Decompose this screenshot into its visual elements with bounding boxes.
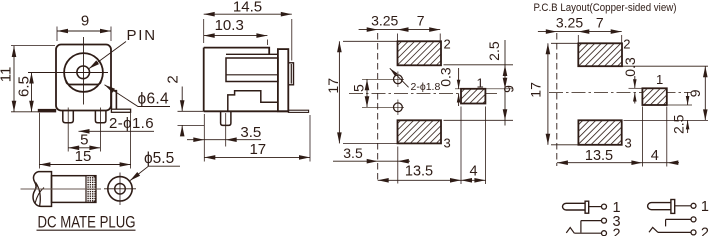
v3 leader 2-phi1.8 line — [390, 68, 409, 87]
v3 dim 5 line — [366, 79, 368, 107]
v4 pad2 bottom ext — [622, 65, 708, 67]
svg-text:2: 2 — [623, 36, 630, 51]
svg-text:3.5: 3.5 — [240, 124, 261, 141]
dim 14.5 arrow left — [204, 12, 215, 17]
dim 2 ext lower — [178, 124, 205, 126]
schematic A pin3 terminal — [602, 218, 607, 223]
v4 dim 2.5 arrow down — [686, 96, 690, 105]
dim 11 line — [13, 46, 15, 112]
front view right mounting foot — [111, 109, 130, 112]
side view top edge with step — [204, 48, 270, 55]
svg-text:2-ϕ1.8: 2-ϕ1.8 — [411, 81, 441, 93]
v3 pad 2 — [398, 41, 442, 65]
v4 dim 9 arrow bottom — [703, 109, 708, 120]
v3 dim 17 arrow top — [337, 41, 342, 52]
svg-text:1: 1 — [701, 199, 709, 215]
plug cap inner curve 2 — [35, 188, 44, 204]
leader 2-phi1.6 arrow — [79, 129, 90, 134]
dim 6.5 arrow top — [29, 73, 34, 84]
v4 dim 0.3 line upper — [634, 76, 636, 88]
svg-text:2-ϕ1.6: 2-ϕ1.6 — [109, 115, 154, 132]
v3 hole bottom htick — [362, 106, 404, 108]
v3 pad2 right ext — [439, 34, 441, 42]
v3 dim 13.5 arrow left — [378, 178, 389, 183]
front view left leg — [63, 111, 74, 123]
schematic A pin2 lever — [566, 228, 574, 234]
schematic B pin2 terminal — [691, 230, 696, 235]
dim 9 ext left — [56, 27, 58, 42]
dim 11 arrow bottom — [12, 101, 17, 112]
v3 hole top — [394, 75, 403, 84]
side view left edge — [203, 48, 205, 112]
svg-text:PIN: PIN — [127, 27, 157, 44]
front view right mounting tab — [111, 91, 116, 109]
v3 dim 0.3 arrow up — [457, 94, 461, 103]
schematic A tip bar — [585, 201, 589, 213]
svg-text:9: 9 — [81, 13, 89, 30]
dim 10.3 ext right — [266, 40, 268, 46]
PIN leader arrow — [89, 60, 99, 68]
v3 pad2 left ext — [397, 34, 399, 42]
svg-text:ϕ6.4: ϕ6.4 — [138, 91, 170, 108]
dim 9 ext right — [110, 27, 112, 42]
plug barrel — [52, 176, 96, 203]
v4 dim top line — [538, 31, 622, 33]
v3 dim 4 arrow right — [474, 178, 485, 183]
v4 dim 0.3 line lower — [634, 93, 636, 104]
dim 9 line — [57, 30, 111, 32]
v4 dim 17 arrow bottom — [546, 134, 551, 145]
v4 pad3 top ext — [624, 119, 709, 121]
dim 11 arrow top — [12, 46, 17, 57]
svg-text:0.3: 0.3 — [622, 57, 638, 77]
v4 dashed centerline vertical — [556, 33, 558, 166]
right leg centerline — [99, 108, 101, 152]
side view rear foot — [288, 110, 308, 112]
plug front outer circle — [108, 177, 132, 201]
dim 5 line — [68, 147, 100, 149]
v3 dim 17 arrow bottom — [337, 132, 342, 143]
dim 2 line lower — [181, 125, 183, 136]
v4 dim 2.5 line lower — [687, 120, 689, 133]
bottom reference ext line — [11, 111, 38, 113]
schematic A pin1 terminal — [602, 204, 607, 209]
phi6.4 leader — [105, 85, 171, 107]
side view step profile — [228, 91, 278, 111]
svg-text:3.25: 3.25 — [371, 13, 398, 29]
v3 dim bottom line — [378, 179, 486, 181]
v4 dim 7 arrow left — [578, 29, 589, 34]
front view barrel circle — [64, 53, 103, 92]
svg-text:17: 17 — [325, 78, 341, 94]
svg-text:5: 5 — [80, 132, 88, 149]
svg-text:2.5: 2.5 — [486, 41, 502, 61]
v4 pad 2 — [578, 43, 622, 66]
v3 dim top line — [359, 29, 441, 31]
dim 9 arrow right — [100, 29, 111, 34]
v3 dim 0.3 line upper — [458, 68, 460, 89]
v3 dim 2.5 arrow down — [503, 78, 508, 89]
svg-text:2: 2 — [701, 226, 709, 236]
svg-text:10.3: 10.3 — [215, 17, 244, 34]
phi6.4 arrow — [105, 85, 116, 93]
plug front crosshair h — [104, 188, 136, 190]
PIN leader line — [89, 42, 126, 69]
v3 dim 13.5 arrow right — [450, 178, 461, 183]
dim 2 line upper — [181, 87, 183, 112]
side view cavity rect — [226, 58, 278, 82]
svg-text:P.C.B Layout(Copper-sided view: P.C.B Layout(Copper-sided view) — [534, 2, 677, 14]
dim 17 line — [204, 156, 310, 158]
left leg centerline — [67, 108, 69, 152]
schematic B tip bar — [671, 200, 675, 214]
schematic B pin1 wire — [675, 205, 691, 207]
side view front leg — [221, 111, 231, 125]
dim 17 arrow right — [299, 155, 310, 160]
front view contact bar — [66, 81, 101, 85]
v4 dim 0.3 arrow down — [633, 79, 637, 88]
dim 6.5 line — [31, 73, 33, 112]
v4 dim 13.5 arrow left — [557, 160, 568, 165]
v3 pad1 left ext — [460, 107, 462, 185]
v4 dim 0.3 arrow up — [633, 93, 637, 102]
dim 2 arrow up — [180, 125, 185, 136]
v3 pad 3 — [398, 120, 442, 143]
v4 dim 3.25 arrow left — [546, 29, 557, 34]
svg-text:DC MATE PLUG: DC MATE PLUG — [38, 214, 136, 232]
v4 dim 17 ext bottom — [551, 144, 578, 146]
v4 dim 17 arrow top — [546, 43, 551, 54]
front view vertical centerline — [83, 37, 85, 105]
v3 dim 2.5 arrow up — [503, 65, 508, 76]
v3 dim 5 arrow top — [365, 79, 370, 90]
v3 dim 0.3 arrow down — [457, 80, 461, 89]
v4 dim 9 line — [704, 66, 706, 120]
dim 14.5 line — [204, 13, 292, 15]
schematic B pin3 terminal — [691, 217, 696, 222]
svg-text:ϕ5.5: ϕ5.5 — [144, 150, 174, 167]
v4 dim 13.5 arrow right — [631, 160, 642, 165]
svg-text:6.5: 6.5 — [15, 76, 32, 97]
v3 hole bottom vtick — [397, 100, 399, 116]
plug knurled tip — [86, 176, 96, 203]
v3 dim 17 line — [338, 41, 340, 143]
v3 dim 9 arrow bottom — [503, 109, 508, 120]
dim 6.5 arrow bottom — [29, 101, 34, 112]
dim 15 ext left — [38, 113, 40, 169]
front view body — [56, 45, 111, 111]
v4 pad1 left ext — [641, 107, 643, 167]
v4 pad 1 — [642, 88, 666, 105]
schematic A pin2 wire — [574, 232, 601, 234]
plug front inner circle — [115, 184, 126, 195]
v3 leader 2-phi1.8 arrow — [390, 68, 398, 76]
svg-text:5: 5 — [351, 84, 367, 92]
schematic B pin2 lever — [649, 227, 658, 232]
v3 dim 3.25 arrow left — [367, 27, 378, 32]
svg-text:1: 1 — [656, 72, 663, 87]
v3 pad1 top ext — [455, 88, 513, 90]
side left edge ext — [203, 114, 205, 162]
DC MATE PLUG underline — [37, 229, 136, 231]
schematic A pin3 wire — [581, 220, 601, 222]
v3 dim 4 arrow left — [461, 178, 472, 183]
dim 15 line — [39, 164, 130, 166]
plug cap — [33, 172, 51, 207]
v3 hole top htick — [362, 78, 404, 80]
dim 15 arrow right — [120, 162, 131, 167]
v4 dim bottom line — [557, 162, 679, 164]
v3 dim 3.5 line — [333, 160, 410, 162]
dim 3.5 arrow left — [193, 137, 204, 142]
v4 pad1 right ext — [666, 107, 668, 167]
v4 dim 7 arrow right — [611, 29, 622, 34]
schematic A pin1 wire — [589, 206, 602, 208]
v4 pad1 bottom ext — [667, 104, 692, 106]
v4 dim 17 ext top — [551, 42, 578, 44]
v3 pad1 right ext — [484, 107, 486, 185]
v3 dim 2.5/9 line — [504, 40, 506, 126]
dim 2 arrow down — [180, 100, 185, 111]
svg-text:17: 17 — [528, 82, 544, 98]
svg-text:2: 2 — [165, 75, 182, 83]
v3 dashed centerline vertical — [377, 33, 379, 182]
v4 horizontal centerline — [549, 92, 691, 94]
v3 dim 0.3 line lower — [458, 94, 460, 107]
svg-text:0.3: 0.3 — [437, 67, 453, 87]
v4 dim 9 arrow top — [703, 66, 708, 77]
front view horizontal centerline — [28, 72, 108, 74]
svg-text:3.5: 3.5 — [343, 145, 363, 161]
schematic A plug barrel — [563, 203, 587, 210]
v4 dim 17 line — [547, 43, 549, 145]
svg-text:2.5: 2.5 — [671, 114, 687, 134]
dim 17 arrow left — [204, 155, 215, 160]
v4 dim 4 arrow right — [667, 160, 678, 165]
v4 dim 2.5 line upper — [687, 92, 689, 105]
svg-text:13.5: 13.5 — [585, 148, 613, 164]
front view left mounting foot — [38, 109, 56, 113]
schematic B pin3 wire — [666, 218, 691, 220]
dim 17 ext right — [309, 115, 311, 162]
svg-text:14.5: 14.5 — [233, 0, 262, 16]
svg-text:11: 11 — [0, 67, 15, 83]
leader 2-phi1.6 line — [79, 130, 155, 132]
phi5.5 leader — [130, 166, 180, 180]
side leg centerline — [225, 113, 227, 147]
svg-text:7: 7 — [596, 15, 604, 31]
dim 14.5 ext right — [291, 19, 293, 61]
svg-text:13.5: 13.5 — [405, 164, 433, 180]
dim 15 ext right — [130, 113, 132, 169]
dim 10.3 arrow left — [204, 33, 215, 38]
v4 pad2 right ext — [621, 35, 623, 43]
side view terminal inner line — [290, 64, 292, 84]
svg-text:2: 2 — [613, 226, 621, 236]
svg-text:9: 9 — [501, 85, 517, 93]
dim 11 ext top — [11, 45, 55, 47]
v4 pad 3 — [578, 120, 621, 145]
dim 3.5 arrow right — [226, 137, 237, 142]
dim 10.3 line — [204, 35, 268, 37]
v3 dim 7 arrow left — [398, 27, 409, 32]
v4 dim 2.5 arrow up — [686, 120, 690, 129]
svg-text:7: 7 — [417, 13, 425, 29]
front view center pin — [77, 66, 90, 79]
v3 dim 3.5 arrow right — [398, 159, 409, 164]
v3 pad2 bottom ext — [444, 64, 514, 66]
v3 pad 1 — [461, 89, 485, 104]
front view right leg — [95, 111, 106, 123]
schematic B pin3 drop — [665, 219, 667, 226]
schematic B plug barrel — [648, 203, 673, 210]
svg-text:15: 15 — [75, 148, 92, 165]
plug cap inner curve — [36, 183, 41, 207]
schematic A pin2 terminal — [602, 231, 607, 236]
v3 dim 5 arrow bottom — [365, 96, 370, 107]
dim 14.5 ext left — [203, 19, 205, 43]
dim 2 ext upper — [178, 110, 204, 112]
dim 9 arrow left — [57, 29, 68, 34]
dim 3.5 line — [187, 139, 261, 141]
schematic A pin3 drop — [580, 221, 582, 233]
plug centerline — [21, 188, 102, 190]
v3 dim 7 arrow right — [429, 27, 440, 32]
plug front crosshair v — [119, 173, 121, 206]
dim 5 arrow right — [89, 146, 100, 151]
svg-text:3: 3 — [625, 136, 632, 151]
svg-text:17: 17 — [249, 141, 266, 158]
side view cavity upper line — [226, 53, 278, 55]
dim 14.5 arrow right — [281, 12, 292, 17]
dim 15 arrow left — [39, 162, 50, 167]
v3 horizontal centerline — [349, 93, 497, 95]
svg-text:4: 4 — [651, 148, 659, 164]
phi5.5 arrow — [130, 172, 140, 181]
side view terminal bump — [288, 63, 293, 85]
svg-text:3.25: 3.25 — [556, 15, 583, 31]
schematic B pin1 terminal — [691, 203, 696, 208]
schematic B pin2 wire — [658, 231, 691, 233]
v4 pad1 top ext — [629, 87, 644, 89]
dim 10.3 arrow right — [256, 33, 267, 38]
v3 hole top vtick — [397, 72, 399, 88]
dim 5 arrow left — [68, 146, 79, 151]
v3 dim 17 ext bottom — [343, 142, 397, 144]
side view back plate — [278, 49, 288, 111]
v3 pad3 top ext — [444, 119, 514, 121]
v3 dim 17 ext top — [343, 40, 397, 42]
side view bottom edge — [204, 110, 288, 112]
v3 hole bottom — [394, 103, 403, 112]
svg-text:2: 2 — [444, 37, 451, 52]
svg-text:4: 4 — [469, 163, 477, 179]
v3 dim 3.5 arrow left — [367, 159, 378, 164]
svg-text:1: 1 — [477, 76, 484, 91]
side view pin line — [226, 74, 278, 76]
v3 pad3 left ext — [397, 147, 399, 184]
svg-text:3: 3 — [444, 135, 451, 150]
v4 pad2 left ext — [577, 35, 579, 43]
